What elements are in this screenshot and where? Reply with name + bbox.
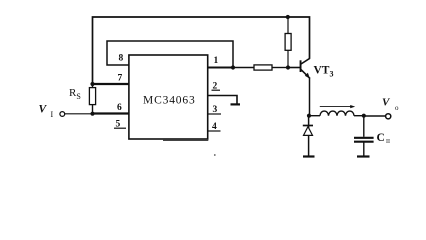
terminal VI input circle bbox=[60, 112, 65, 117]
pin 2 underline bbox=[212, 89, 221, 91]
wire: emitter down to switch node bbox=[309, 78, 311, 116]
wire: pin 6 stub to IC bbox=[93, 112, 130, 114]
wire: pin 1 stub to junction bbox=[208, 67, 233, 69]
svg-text:7: 7 bbox=[118, 74, 123, 84]
svg-text:C: C bbox=[377, 132, 385, 144]
node: output node dot bbox=[362, 114, 366, 118]
wire: IC bottom edge scan doubling bbox=[163, 139, 208, 141]
svg-text:VT3: VT3 bbox=[314, 65, 334, 79]
svg-text:o: o bbox=[395, 104, 399, 112]
svg-text:6: 6 bbox=[117, 103, 122, 113]
svg-text:I: I bbox=[51, 110, 54, 119]
svg-text:1: 1 bbox=[214, 56, 219, 66]
svg-text:RS: RS bbox=[69, 87, 81, 101]
svg-text:8: 8 bbox=[119, 54, 124, 64]
ground (diode) bbox=[303, 155, 315, 157]
diode VD (freewheeling, pointing up) bbox=[308, 116, 310, 157]
current direction arrow above inductor bbox=[320, 106, 353, 108]
svg-text:II: II bbox=[386, 139, 390, 145]
node: junction dot on top rail above vertical resistor bbox=[286, 15, 290, 19]
wire: inner loop from IC pin 8 up and across to pin 1 node bbox=[107, 41, 233, 68]
node: RS bottom junction dot bbox=[90, 112, 94, 116]
transistor VT3 bbox=[288, 67, 300, 69]
pin 4 stub line bbox=[209, 130, 221, 132]
svg-text:MC34063: MC34063 bbox=[143, 95, 196, 107]
node: pin 1 junction dot bbox=[231, 65, 235, 69]
wire: VI to RS bottom junction bbox=[65, 113, 93, 115]
resistor RS (vertical, current sense) bbox=[92, 84, 94, 88]
node: switch node dot bbox=[307, 114, 311, 118]
wire: outer feedback loop from RS top junction up, across top rail, down to VT3 collector bbox=[93, 17, 310, 84]
wire: pin 2 to ground bbox=[208, 96, 237, 104]
wire: pin 7 stub from RS top junction to IC bbox=[93, 83, 130, 85]
resistor (vertical, collector pull) bbox=[287, 17, 289, 34]
node: base node junction dot bbox=[286, 65, 290, 69]
ground (capacitor) bbox=[357, 155, 370, 157]
wire: to output terminal bbox=[364, 115, 385, 117]
node: RS top junction dot bbox=[90, 82, 94, 86]
stray scan dot bbox=[214, 154, 216, 156]
inductor L bbox=[309, 115, 320, 117]
IC U1 MC34063 bbox=[129, 55, 208, 139]
pin 5 stub line bbox=[114, 127, 126, 129]
terminal Vo output circle bbox=[386, 114, 391, 119]
svg-text:V: V bbox=[382, 97, 391, 109]
ground (pin 2) bbox=[231, 103, 241, 105]
resistor R (horizontal, base drive) bbox=[233, 67, 254, 69]
pin 3 stub line bbox=[208, 113, 221, 115]
svg-text:V: V bbox=[39, 104, 48, 116]
capacitor Co bbox=[363, 116, 365, 137]
